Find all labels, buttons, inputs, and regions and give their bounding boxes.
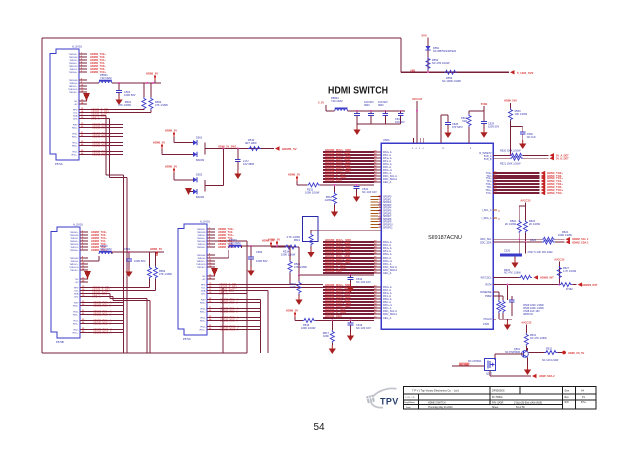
pin 16 P3 HDMI — [207, 287, 215, 289]
svg-text:CEC: CEC — [201, 294, 206, 296]
wire group4 row5 — [323, 298, 374, 300]
svg-text:TMDS1-: TMDS1- — [69, 69, 77, 71]
svg-text:×: × — [498, 209, 500, 213]
wire — [511, 302, 513, 316]
junction — [334, 184, 336, 186]
arrow marker — [185, 188, 192, 195]
wire — [128, 252, 130, 259]
wire tmds pair — [215, 308, 260, 310]
svg-text:R524: R524 — [562, 231, 569, 234]
wire hpd — [87, 118, 110, 120]
svg-text:RX0+: RX0+ — [73, 306, 79, 308]
inductor FB503 — [229, 245, 242, 248]
wire — [356, 185, 358, 187]
wire group1 row8 — [323, 172, 374, 174]
capacitor C511 — [354, 187, 360, 189]
svg-text:+5V: +5V — [202, 279, 206, 281]
ground — [347, 332, 354, 341]
pin 21 P1 HDMI — [79, 133, 87, 135]
connector P1 HDMI — [50, 49, 79, 160]
svg-text:RST#: RST# — [485, 284, 492, 287]
pin 6 P3 HDMI — [207, 243, 215, 245]
pin 1 P1 HDMI — [79, 53, 87, 55]
svg-text:D501: D501 — [196, 136, 203, 140]
wire — [523, 157, 549, 159]
wire group4 row1 — [323, 286, 374, 288]
svg-text:CEC_A: CEC_A — [383, 317, 392, 320]
pin 15 P2 HDMI — [80, 287, 88, 289]
wire group3 row3 — [323, 247, 374, 249]
svg-text:47K 1/16W: 47K 1/16W — [294, 265, 307, 269]
svg-text:+5V: +5V — [75, 282, 79, 284]
wire ddc scl — [87, 109, 144, 111]
wire group4 row11 — [323, 317, 374, 319]
resistor R513 4.7K — [309, 233, 313, 246]
wire group2 stub6 — [371, 210, 379, 212]
junction — [416, 110, 418, 112]
wire — [109, 294, 111, 299]
junction — [222, 148, 224, 150]
wire — [228, 250, 230, 258]
svg-text:TMDS0+: TMDS0+ — [197, 247, 206, 249]
pin 1 P2 HDMI — [80, 231, 88, 233]
pin 23 P1 HDMI — [79, 142, 87, 144]
svg-text:TMDS1-: TMDS1- — [70, 247, 78, 249]
svg-text:HDMI_5V: HDMI_5V — [165, 165, 177, 169]
logo swoosh — [371, 388, 396, 407]
wire — [370, 116, 372, 125]
wire — [296, 181, 298, 185]
pin 8 P3 HDMI — [207, 254, 215, 256]
pin 20 P3 HDMI — [207, 302, 215, 304]
wire — [527, 357, 529, 366]
svg-text:HDMI2_CEC: HDMI2_CEC — [325, 314, 343, 318]
svg-text:RXC+: RXC+ — [200, 330, 207, 332]
table line — [404, 399, 597, 401]
wire — [522, 134, 524, 140]
wire — [525, 325, 527, 334]
svg-text:BAV99: BAV99 — [196, 158, 204, 162]
svg-text:RX0+: RX0+ — [200, 303, 206, 305]
wire — [357, 123, 401, 125]
wire — [524, 242, 526, 253]
svg-text:HDMI_5V_SW1: HDMI_5V_SW1 — [218, 145, 237, 149]
wire — [350, 320, 352, 323]
svg-text:2-5(p)-(5)-5(e)-c(4)b-(4)(9): 2-5(p)-(5)-5(e)-c(4)b-(4)(9) — [514, 401, 542, 404]
pin 21 P3 HDMI — [207, 308, 215, 310]
junction — [558, 284, 560, 286]
svg-text:3_3V: 3_3V — [318, 101, 324, 105]
svg-text:2K 1/16W: 2K 1/16W — [529, 223, 541, 226]
resistor R520 — [510, 153, 523, 157]
wire — [325, 105, 327, 111]
wire ddc — [215, 290, 268, 292]
svg-text:TMDSC+: TMDSC+ — [69, 264, 79, 266]
component box R513 — [303, 217, 319, 242]
wire — [204, 143, 206, 155]
wire — [528, 352, 544, 354]
port arrow HDMI5_5V — [275, 146, 280, 150]
wire group1 row3 — [323, 157, 374, 159]
svg-text:RX2+: RX2+ — [200, 321, 206, 323]
svg-text:NC 1UF 16V: NC 1UF 16V — [356, 326, 371, 330]
wire — [310, 246, 312, 249]
svg-text:5V0: 5V0 — [421, 34, 427, 38]
wire — [105, 116, 107, 175]
table line — [418, 394, 420, 409]
svg-text:Date: Date — [406, 406, 411, 409]
pin stub — [493, 209, 497, 211]
highlight NC_INSTALL — [459, 363, 469, 366]
wire group2 stub8 — [371, 215, 379, 217]
wire — [110, 177, 127, 179]
wire — [149, 279, 151, 288]
resistor R519 51R — [467, 114, 471, 127]
pin 13 P2 HDMI — [80, 278, 88, 280]
svg-text:DDC_SDA: DDC_SDA — [480, 241, 492, 244]
pin 7 P1 HDMI — [79, 71, 87, 73]
wire — [331, 320, 333, 330]
pin 22 P3 HDMI — [207, 311, 215, 313]
wire — [510, 103, 512, 108]
resistor R524 — [542, 237, 555, 241]
table line — [519, 387, 521, 395]
svg-text:RX0+: RX0+ — [72, 128, 78, 130]
svg-text:100N 50V: 100N 50V — [134, 259, 146, 263]
svg-text:27M2: 27M2 — [483, 323, 490, 326]
junction — [350, 319, 352, 321]
wire tmds pair — [215, 299, 260, 301]
arrow marker P2 HDMI — [84, 271, 91, 279]
wire group3 row11 — [323, 272, 374, 274]
wire — [196, 143, 198, 155]
svg-text:16V 0805: 16V 0805 — [243, 162, 255, 166]
resistor R531 NC 47K — [524, 333, 528, 346]
pin 18 P1 HDMI — [79, 118, 87, 120]
wire — [237, 161, 239, 170]
port arrow — [566, 237, 571, 241]
mosfet arrow — [490, 363, 494, 366]
svg-text:TMDS1S: TMDS1S — [70, 244, 79, 246]
port arrow — [541, 171, 546, 175]
pin 14 P1 HDMI — [79, 103, 87, 105]
junction — [276, 245, 278, 247]
wire — [558, 262, 560, 285]
logo globe mark — [366, 395, 375, 404]
svg-text:T P V ( Top Victory Elec: T P V ( Top Victory Electronics Co. - Lt… — [412, 389, 459, 393]
wire group3 row8 — [323, 263, 374, 265]
svg-text:HDMI23_RST: HDMI23_RST — [582, 284, 598, 287]
wire tmds pair — [87, 136, 123, 138]
wire bus down — [222, 288, 224, 354]
wire — [518, 239, 520, 253]
svg-text:TMDS0S: TMDS0S — [69, 80, 78, 82]
pin 13 P3 HDMI — [207, 275, 215, 277]
pin 3 P2 HDMI — [80, 237, 88, 239]
svg-text:Thursday May 20 2010: Thursday May 20 2010 — [428, 406, 453, 409]
svg-text:C527 0.1UF 16V 0402: C527 0.1UF 16V 0402 — [528, 251, 553, 254]
junction — [331, 319, 333, 321]
wire tmds pair — [88, 320, 123, 322]
junction — [356, 110, 358, 112]
resistor R504 47K — [154, 266, 158, 279]
port arrow — [541, 179, 546, 183]
wire — [113, 300, 150, 302]
wire — [490, 375, 531, 377]
wire — [525, 346, 527, 350]
svg-text:HDMI_5V: HDMI_5V — [262, 239, 274, 243]
pin 6 P2 HDMI — [80, 246, 88, 248]
wire — [109, 119, 111, 178]
wire — [173, 137, 175, 143]
power flag HDMI_5V — [296, 177, 298, 182]
wire bus down — [267, 291, 269, 354]
pin 9 P3 HDMI — [207, 257, 215, 259]
svg-text:TMDSCS: TMDSCS — [196, 264, 206, 266]
svg-text:AVCC33: AVCC33 — [412, 97, 423, 101]
junction — [524, 241, 526, 243]
wire group3 row7 — [323, 260, 374, 262]
wire — [506, 285, 508, 300]
ground — [444, 129, 451, 138]
svg-text:TMDSCS: TMDSCS — [68, 89, 78, 91]
wire ddc — [88, 296, 113, 298]
wire — [494, 354, 496, 360]
svg-text:TMDSC-: TMDSC- — [197, 267, 206, 269]
svg-text:47P NPO: 47P NPO — [452, 126, 463, 129]
wire — [298, 294, 300, 296]
capacitor C530 NC 1UF — [520, 132, 526, 134]
wire tx row4 — [493, 180, 540, 182]
wire — [498, 292, 500, 300]
wire — [469, 110, 484, 112]
capacitor C522 10N — [383, 114, 389, 116]
junction — [356, 184, 358, 186]
wire — [79, 82, 99, 84]
wire group4 row7 — [323, 304, 374, 306]
svg-text:0603: 0603 — [378, 104, 384, 107]
resistor R528 — [559, 283, 572, 287]
pin 5 P1 HDMI — [79, 65, 87, 67]
svg-text:SDA: SDA — [73, 115, 78, 118]
capacitor C503 100N 50V — [248, 257, 254, 259]
wire — [310, 230, 312, 233]
wire — [289, 273, 291, 285]
wire — [523, 154, 549, 156]
wire — [174, 179, 193, 181]
wire tmds pair — [215, 317, 260, 319]
svg-text:TMDSC+: TMDSC+ — [68, 86, 78, 88]
capacitor C520 10N — [354, 114, 360, 116]
junction — [152, 82, 154, 84]
wire — [572, 284, 576, 286]
ground — [307, 249, 314, 258]
svg-text:HDMI_5V: HDMI_5V — [150, 247, 162, 251]
connector P3 HDMI — [178, 224, 207, 335]
wire — [334, 205, 336, 208]
wire tmds pair — [87, 154, 123, 156]
wire — [350, 275, 352, 278]
wire — [502, 313, 504, 319]
junction — [427, 71, 429, 73]
wire — [311, 229, 381, 231]
svg-text:TMDSC+: TMDSC+ — [196, 261, 206, 263]
svg-text:5V0B: 5V0B — [481, 102, 488, 106]
pin 19 P1 HDMI — [79, 124, 87, 126]
wire — [493, 291, 499, 293]
ground — [125, 268, 132, 277]
pin 4 P1 HDMI — [79, 62, 87, 64]
pin 15 P1 HDMI — [79, 109, 87, 111]
wire tmds pair — [215, 326, 260, 328]
resistor R517 100K — [330, 330, 334, 343]
wire group2 stub12 — [371, 226, 379, 228]
ground — [524, 366, 531, 375]
wire — [518, 233, 520, 239]
svg-text:C O L # 5: C O L # 5 — [405, 397, 415, 399]
wire — [356, 111, 358, 114]
svg-text:R520 100K 1/16W: R520 100K 1/16W — [500, 150, 521, 153]
port arrow — [550, 153, 555, 157]
wire — [384, 116, 386, 125]
svg-text:47K 1/16W: 47K 1/16W — [159, 272, 172, 276]
svg-text:Y20 OHM: Y20 OHM — [229, 241, 240, 245]
svg-text:2K 1/16W: 2K 1/16W — [505, 223, 517, 226]
svg-text:D502: D502 — [196, 173, 203, 177]
wire tmds pair — [88, 305, 123, 307]
wire bus down — [259, 300, 261, 354]
wire — [161, 149, 163, 154]
wire — [441, 114, 448, 116]
wire rail avcc — [348, 110, 406, 112]
svg-text:HDMI SWITCH: HDMI SWITCH — [328, 86, 388, 97]
pin stub — [419, 138, 421, 143]
capacitor C529 100N — [481, 122, 487, 124]
port arrow — [534, 275, 539, 279]
wire — [502, 296, 504, 300]
connector P2 HDMI — [51, 227, 80, 338]
resistor R523 2K — [523, 220, 527, 233]
pin 11 P3 HDMI — [207, 263, 215, 265]
svg-text:TMDS0+: TMDS0+ — [70, 250, 79, 252]
svg-text:TMDS2+: TMDS2+ — [69, 54, 78, 56]
wire — [241, 246, 243, 248]
wire scl — [493, 238, 542, 240]
wire — [356, 189, 358, 193]
junction — [298, 274, 300, 276]
power flag HDMI_5V — [173, 133, 175, 138]
wire — [356, 116, 358, 125]
svg-text:RX2-: RX2- — [74, 330, 79, 332]
wire tx row2 — [493, 175, 540, 177]
svg-text:HDMI3 SWITCH: HDMI3 SWITCH — [428, 401, 446, 404]
svg-text:TMDS1S: TMDS1S — [69, 66, 78, 68]
svg-text:RX1+: RX1+ — [73, 315, 79, 317]
pin 13 P1 HDMI — [79, 100, 87, 102]
wire — [506, 319, 508, 321]
wire group3 row4 — [323, 250, 374, 252]
port arrow — [541, 188, 546, 192]
wire rail g3 — [299, 274, 374, 276]
wire — [493, 295, 503, 297]
svg-text:SII9187ACNU: SII9187ACNU — [428, 235, 462, 241]
wire — [447, 125, 449, 130]
diode D551 NC RB751S40 — [425, 46, 430, 50]
power flag HDMI_5V — [161, 145, 163, 150]
wire — [510, 121, 512, 155]
mosfet gate bar — [487, 361, 489, 369]
pin 11 P2 HDMI — [80, 266, 88, 268]
wire — [384, 111, 386, 114]
svg-text:HDMI_SDA 2: HDMI_SDA 2 — [539, 374, 555, 378]
svg-text:100N 50V: 100N 50V — [488, 126, 499, 129]
wire group1 row11 — [323, 181, 374, 183]
wire group1 row7 — [323, 169, 374, 171]
svg-text:RSV: RSV — [74, 303, 79, 305]
svg-text:AVCC33: AVCC33 — [554, 258, 565, 262]
resistor R512 4.7K — [333, 192, 337, 205]
svg-text:5VD_B: 5VD_B — [484, 158, 492, 161]
pin 18 P2 HDMI — [80, 296, 88, 298]
wire — [499, 318, 512, 320]
wire group1 row5 — [323, 163, 374, 165]
diode D502 BAV99 — [193, 177, 197, 182]
ground — [331, 208, 338, 217]
wire — [123, 175, 125, 353]
pin 26 P1 HDMI — [79, 154, 87, 156]
wire tmds pair — [88, 332, 123, 334]
wire — [237, 149, 239, 160]
pin 18 P3 HDMI — [207, 293, 215, 295]
junction — [350, 274, 352, 276]
wire — [522, 127, 524, 133]
svg-text:HDMI_5V: HDMI_5V — [165, 129, 177, 133]
wire — [162, 153, 193, 155]
pin 10 P1 HDMI — [79, 85, 87, 87]
svg-text:RX1-: RX1- — [73, 143, 78, 145]
wire group1 row2 — [323, 154, 374, 156]
wire group3 row1 — [323, 241, 374, 243]
svg-text:TMDS2+: TMDS2+ — [70, 232, 79, 234]
wire — [511, 296, 513, 300]
svg-text:Dwg/Name: Dwg/Name — [404, 402, 416, 404]
junction — [506, 284, 508, 286]
svg-text:RX1-: RX1- — [74, 321, 79, 323]
svg-text:NC: NC — [74, 101, 78, 103]
svg-text:NC 1UF: NC 1UF — [527, 136, 537, 139]
wire top 5V bus — [42, 37, 401, 39]
svg-text:P8 5A: P8 5A — [55, 162, 63, 166]
pin 26 P2 HDMI — [80, 332, 88, 334]
wire group1 row1 — [323, 151, 374, 153]
svg-text:HDMI_US_5V: HDMI_US_5V — [568, 351, 585, 355]
svg-text:R525: R525 — [530, 239, 537, 242]
wire group2 stub9 — [371, 218, 379, 220]
pin 24 P2 HDMI — [80, 323, 88, 325]
svg-text:TMDS2-: TMDS2- — [197, 235, 205, 237]
wire tmds pair — [87, 124, 123, 126]
op-amp U1 SII9187ACNU body — [381, 143, 493, 329]
wire — [400, 111, 402, 114]
wire — [205, 148, 274, 150]
svg-text:TMDS0S: TMDS0S — [197, 255, 206, 257]
pin 3 P1 HDMI — [79, 59, 87, 61]
pin 25 P3 HDMI — [207, 326, 215, 328]
svg-text:TMDS2+: TMDS2+ — [197, 229, 206, 231]
inductor FB504 — [335, 108, 348, 111]
junction — [384, 110, 386, 112]
wire tmds pair — [87, 145, 123, 147]
